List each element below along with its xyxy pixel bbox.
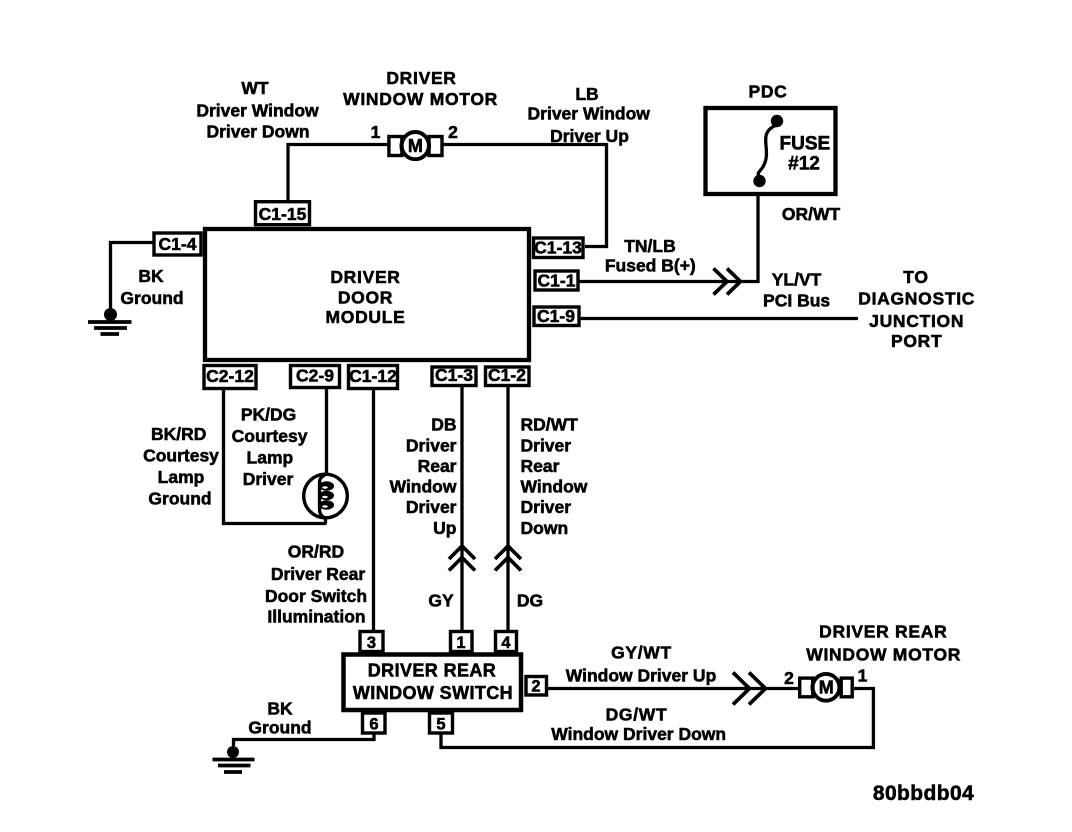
motor B1 label DRIVER WINDOW MOTOR: [343, 68, 498, 109]
svg-text:Ground: Ground: [248, 718, 311, 738]
wire C1-12 to switch pin 3: [372, 388, 375, 631]
svg-text:OR/RD: OR/RD: [288, 542, 344, 562]
wire C1-1 to fuse: [578, 185, 758, 282]
svg-text:C1-13: C1-13: [534, 238, 582, 258]
net label DB Driver Rear Window Driver Up: [390, 414, 457, 538]
svg-text:FUSE: FUSE: [780, 134, 831, 155]
connector C1-3: [432, 365, 476, 386]
svg-text:Door Switch: Door Switch: [265, 586, 367, 606]
svg-text:1: 1: [858, 666, 868, 686]
net label RD/WT Driver Rear Window Driver Down: [521, 414, 588, 538]
net label BK/RD Courtesy Lamp Ground: [143, 424, 219, 509]
wire C1-9 to diagnostic port: [579, 317, 858, 320]
connector C2-12: [204, 366, 256, 389]
svg-text:6: 6: [369, 716, 378, 734]
svg-text:2: 2: [784, 668, 794, 688]
wire C2-12 to lamp return: [224, 388, 327, 524]
svg-text:DOOR: DOOR: [338, 288, 393, 308]
wire C2-9 to lamp: [325, 387, 328, 474]
svg-text:BK/RD: BK/RD: [151, 424, 206, 444]
connector C1-12: [349, 366, 398, 389]
svg-text:MODULE: MODULE: [325, 307, 405, 327]
svg-text:Window Driver Down: Window Driver Down: [551, 724, 726, 744]
arrow up chevrons on DG wire: [495, 546, 521, 571]
connector C1-15: [256, 202, 310, 225]
pin 1: [451, 632, 473, 653]
svg-text:C1-2: C1-2: [488, 365, 526, 385]
net label BK Ground: [120, 266, 183, 308]
svg-text:BK: BK: [267, 699, 293, 719]
pin 3: [360, 632, 383, 653]
svg-text:M: M: [819, 678, 834, 698]
svg-text:Window: Window: [521, 477, 588, 497]
arrow up chevrons on GY wire: [449, 546, 475, 571]
svg-text:C1-3: C1-3: [435, 365, 473, 385]
svg-text:TO: TO: [903, 267, 928, 287]
svg-text:PDC: PDC: [748, 82, 787, 102]
svg-text:JUNCTION: JUNCTION: [869, 311, 964, 331]
connector C1-2: [486, 365, 530, 386]
ground G1: [88, 308, 132, 334]
svg-text:1: 1: [371, 122, 381, 142]
wire C1-4 to ground: [111, 243, 155, 309]
svg-text:Lamp: Lamp: [247, 448, 294, 468]
svg-text:C1-4: C1-4: [159, 234, 197, 254]
svg-text:TN/LB: TN/LB: [624, 236, 676, 256]
wire pin 6 to ground: [234, 733, 375, 746]
svg-text:YL/VT: YL/VT: [772, 270, 822, 290]
svg-text:DB: DB: [431, 414, 456, 434]
svg-text:Up: Up: [433, 518, 456, 538]
svg-text:PK/DG: PK/DG: [241, 405, 296, 425]
svg-text:Ground: Ground: [148, 489, 211, 509]
svg-text:DRIVER REAR: DRIVER REAR: [819, 622, 947, 642]
svg-text:LB: LB: [575, 84, 598, 104]
wire C1-15 to motor pin1: [288, 145, 388, 203]
svg-text:Driver Rear: Driver Rear: [271, 564, 366, 584]
svg-text:Fused B(+): Fused B(+): [605, 256, 696, 276]
net label PK/DG Courtesy Lamp Driver: [232, 405, 308, 490]
power distribution center box: [706, 108, 836, 194]
svg-text:C2-9: C2-9: [296, 366, 334, 386]
svg-text:Window: Window: [390, 477, 457, 497]
svg-text:DG: DG: [517, 591, 543, 611]
svg-text:DIAGNOSTIC: DIAGNOSTIC: [858, 289, 975, 309]
pin 4: [496, 632, 517, 653]
switch S1 DRIVER REAR WINDOW SWITCH: [344, 655, 522, 711]
motor B1 driver window motor: [389, 132, 442, 159]
connector C2-9: [291, 366, 340, 388]
svg-text:Driver: Driver: [406, 435, 457, 455]
net label TN/LB Fused B(+): [605, 236, 696, 276]
net label YL/VT PCI Bus: [763, 270, 830, 311]
svg-text:WT: WT: [241, 78, 269, 98]
svg-text:Rear: Rear: [521, 456, 560, 476]
ground G2: [213, 746, 255, 772]
svg-text:5: 5: [436, 716, 445, 734]
pin 5: [430, 713, 453, 734]
svg-text:Driver Up: Driver Up: [550, 126, 629, 146]
net label GY/WT Window Driver Up: [566, 643, 717, 686]
motor B2 label DRIVER REAR WINDOW MOTOR: [806, 622, 961, 665]
svg-text:4: 4: [501, 634, 511, 652]
wire pin 5 to motor pin 1 loop: [441, 689, 873, 748]
svg-text:DRIVER: DRIVER: [330, 267, 400, 287]
wire C1-3 to switch pin 1: [460, 385, 463, 631]
svg-text:GY: GY: [428, 591, 454, 611]
svg-text:Illumination: Illumination: [267, 607, 365, 627]
svg-text:#12: #12: [788, 154, 820, 175]
svg-text:Driver: Driver: [243, 469, 294, 489]
svg-text:Driver: Driver: [406, 497, 457, 517]
lamp E1 courtesy lamp: [304, 474, 348, 523]
svg-text:Driver Down: Driver Down: [206, 122, 309, 142]
module U1 DRIVER DOOR MODULE: [205, 229, 529, 360]
svg-text:RD/WT: RD/WT: [521, 414, 579, 434]
arrow connector in-line on GY/WT: [733, 673, 766, 705]
svg-text:PORT: PORT: [891, 331, 942, 351]
svg-text:C1-15: C1-15: [259, 204, 307, 224]
svg-text:C2-12: C2-12: [206, 366, 254, 386]
pin 2: [526, 677, 547, 696]
svg-text:WINDOW MOTOR: WINDOW MOTOR: [343, 89, 498, 109]
connector C1-13: [534, 238, 584, 258]
wire pin 2 to motor pin 2: [547, 687, 801, 690]
svg-text:C1-1: C1-1: [538, 271, 576, 291]
svg-text:Lamp: Lamp: [158, 467, 205, 487]
arrow connector in-line: [714, 269, 741, 295]
net label BK Ground bottom: [248, 699, 311, 738]
svg-text:WINDOW MOTOR: WINDOW MOTOR: [806, 645, 961, 665]
svg-text:DG/WT: DG/WT: [606, 705, 668, 725]
svg-text:Driver Window: Driver Window: [528, 104, 651, 124]
svg-text:Driver: Driver: [521, 435, 572, 455]
svg-text:Driver: Driver: [521, 497, 572, 517]
svg-text:80bbdb04: 80bbdb04: [873, 782, 974, 805]
svg-text:BK: BK: [138, 266, 164, 286]
net label LB Driver Window Driver Up: [528, 84, 651, 146]
pin 6: [363, 713, 386, 734]
svg-text:Courtesy: Courtesy: [232, 426, 308, 446]
svg-text:DRIVER REAR: DRIVER REAR: [368, 661, 496, 681]
svg-text:2: 2: [531, 678, 540, 696]
svg-text:DRIVER: DRIVER: [386, 68, 456, 88]
label TO DIAGNOSTIC JUNCTION PORT: [858, 267, 975, 351]
svg-text:Window Driver Up: Window Driver Up: [566, 666, 717, 686]
svg-text:OR/WT: OR/WT: [782, 204, 841, 224]
svg-text:M: M: [408, 136, 423, 156]
svg-text:C1-12: C1-12: [349, 366, 397, 386]
svg-text:C1-9: C1-9: [537, 306, 575, 326]
fuse F12: [753, 115, 830, 187]
net label DG/WT Window Driver Down: [551, 705, 726, 745]
svg-text:Rear: Rear: [418, 456, 457, 476]
motor B2 driver rear window motor: [800, 674, 853, 701]
svg-text:Ground: Ground: [120, 288, 183, 308]
connector C1-1: [535, 271, 578, 291]
net label OR/RD Driver Rear Door Switch Illumination: [265, 542, 367, 627]
connector C1-9: [534, 306, 579, 326]
net label WT Driver Window Driver Down: [196, 78, 319, 142]
svg-text:WINDOW SWITCH: WINDOW SWITCH: [353, 683, 513, 703]
svg-text:Down: Down: [521, 518, 569, 538]
svg-text:Courtesy: Courtesy: [143, 446, 219, 466]
svg-text:2: 2: [448, 122, 458, 142]
svg-text:PCI Bus: PCI Bus: [763, 291, 830, 311]
svg-text:GY/WT: GY/WT: [611, 643, 672, 663]
svg-text:1: 1: [456, 634, 465, 652]
wire motor pin2 to C1-13: [443, 145, 607, 247]
svg-text:3: 3: [367, 634, 376, 652]
svg-text:Driver Window: Driver Window: [196, 101, 319, 121]
wire C1-2 to switch pin 4: [506, 385, 509, 631]
connector C1-4: [154, 233, 201, 255]
